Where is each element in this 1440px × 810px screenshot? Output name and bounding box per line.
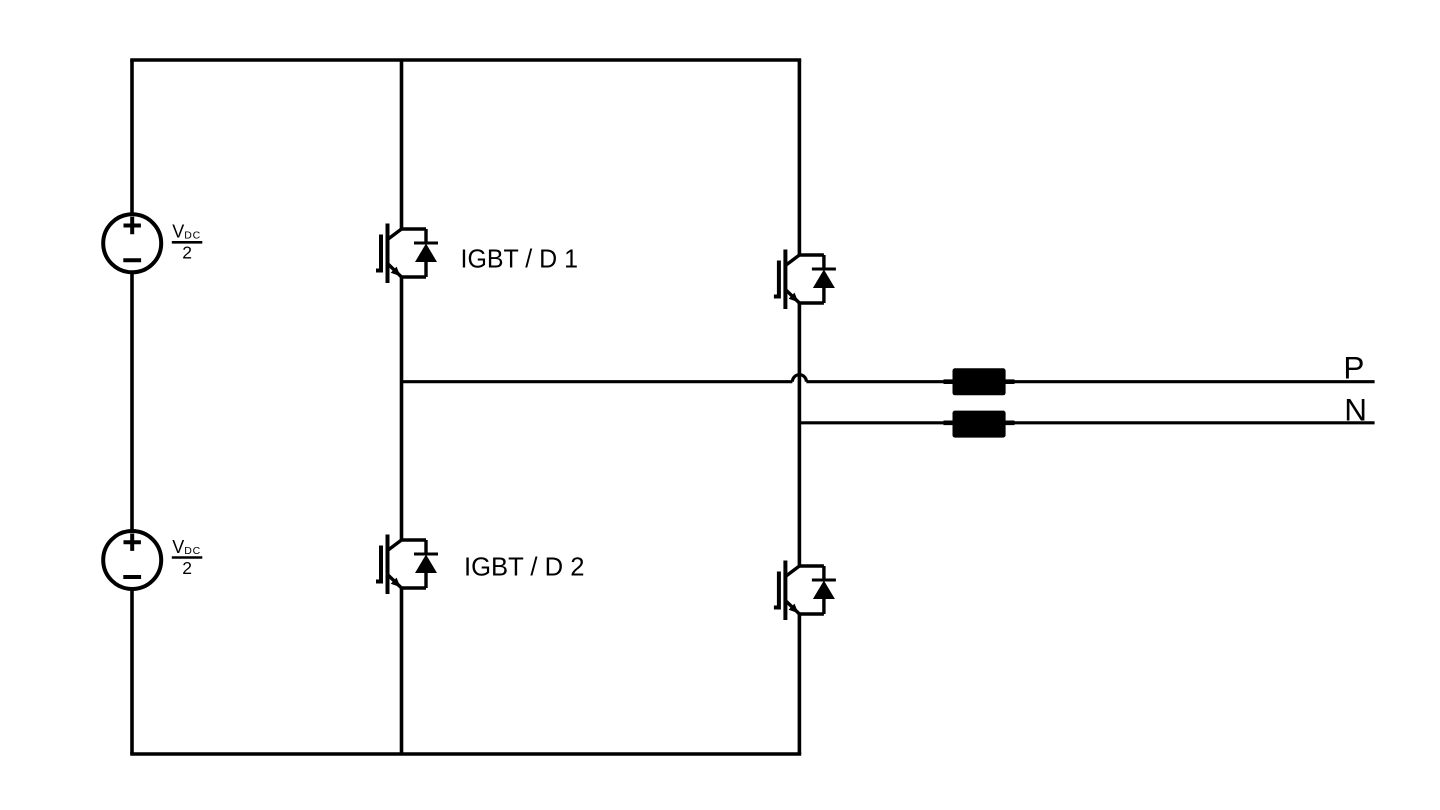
wire: P output line to the right <box>806 380 1374 383</box>
wire: P output from middle-leg midpoint <box>402 380 793 383</box>
svg-text:V: V <box>172 222 184 242</box>
wire: middle phase leg, segment above IGBT/D1 <box>400 60 404 229</box>
voltage source V2 (lower VDC/2) <box>103 531 161 589</box>
label: V1 value VDC/2 <box>172 222 203 263</box>
svg-text:N: N <box>1344 391 1367 427</box>
wire: bottom DC rail <box>130 752 801 756</box>
svg-text:V: V <box>172 537 184 557</box>
wire: top DC rail <box>130 58 801 62</box>
svg-text:2: 2 <box>182 243 192 263</box>
svg-text:IGBT / D 2: IGBT / D 2 <box>464 553 585 581</box>
choke lead stubs on N line <box>944 420 1015 425</box>
svg-text:IGBT / D 1: IGBT / D 1 <box>461 245 579 273</box>
ferrite choke block on N line <box>953 411 1006 438</box>
voltage source V1 (upper VDC/2) <box>103 214 161 272</box>
svg-text:2: 2 <box>182 558 192 578</box>
IGBT/diode module 4 (lower right) <box>774 561 836 621</box>
svg-text:P: P <box>1343 350 1364 386</box>
wire hop over right phase leg <box>792 375 806 382</box>
wire: N output from right-leg midpoint <box>799 421 1374 424</box>
svg-text:DC: DC <box>184 230 201 242</box>
wire: right phase leg, middle segment <box>798 303 802 566</box>
svg-text:DC: DC <box>184 545 201 557</box>
ferrite choke block on P line <box>953 368 1006 395</box>
wire: right phase leg, upper segment <box>798 60 802 255</box>
wire: middle phase leg, segment below IGBT/D2 <box>400 588 404 754</box>
IGBT/diode module 2 (lower left, IGBT / D 2) <box>376 535 438 595</box>
IGBT/diode module 1 (upper left, IGBT / D 1) <box>376 224 438 284</box>
wire: middle phase leg, segment between IGBT/D1 and IGBT/D2 <box>400 277 404 540</box>
wire: left DC bus (vertical) <box>130 60 134 754</box>
IGBT/diode module 3 (upper right) <box>774 250 836 310</box>
choke lead stubs on P line <box>944 379 1015 384</box>
label: V2 value VDC/2 <box>172 537 203 578</box>
wire: right phase leg, lower segment <box>798 614 802 754</box>
